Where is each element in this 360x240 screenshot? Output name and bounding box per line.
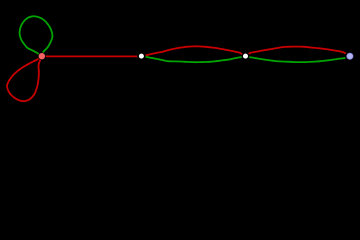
- white node dot 2: [243, 54, 248, 59]
- red petal loop at origin: [7, 56, 42, 101]
- red upper arc of lens 2: [246, 47, 349, 56]
- green lower arc of lens 2: [246, 56, 350, 62]
- black occlusion ring around blue endpoint dot: [346, 52, 354, 60]
- black occlusion ring around node 2: [242, 53, 248, 59]
- green petal loop at origin: [20, 16, 53, 56]
- salmon origin dot: [39, 53, 45, 59]
- blue endpoint dot: [347, 53, 353, 59]
- black occlusion ring around node 1: [138, 53, 145, 60]
- red straight segment from origin to first node: [42, 55, 141, 57]
- white node dot 1: [139, 54, 144, 59]
- black occlusion ring around origin dot: [38, 53, 45, 60]
- green lower arc of lens 1: [142, 56, 245, 62]
- red upper arc of lens 1: [142, 46, 245, 56]
